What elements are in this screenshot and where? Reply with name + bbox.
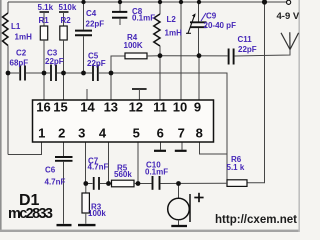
resistor R1 top stub: [43, 12, 45, 26]
junction pin4/R5: [106, 181, 111, 186]
wire antenna row: node to C11: [160, 55, 228, 57]
microphone BM1 body: [168, 198, 190, 220]
wire pin15 drop: [63, 73, 65, 100]
wire pin8 step: [200, 142, 228, 154]
wire main row y73: node A to C2: [8, 72, 19, 74]
wire R4 right lead to node L2: [147, 55, 160, 57]
svg-text:0.1mF: 0.1mF: [145, 168, 168, 177]
junction supply drop top rail: [262, 0, 267, 5]
svg-text:13: 13: [104, 100, 118, 115]
microphone plus sign: [194, 193, 203, 202]
svg-text:L1: L1: [11, 22, 21, 31]
svg-text:7: 7: [178, 126, 185, 141]
wire L2 top lead: [159, 2, 161, 14]
svg-text:R1: R1: [39, 16, 50, 25]
wire C11 to antenna: [235, 50, 290, 57]
wire mic ground stub: [178, 220, 180, 225]
svg-text:100K: 100K: [124, 41, 143, 50]
wire R3 bottom stub: [85, 213, 87, 224]
svg-text:4.7nF: 4.7nF: [45, 178, 66, 187]
wire C10 to mic node to R6 left: [161, 182, 228, 184]
svg-text:3: 3: [78, 126, 85, 141]
svg-text:4.7nF: 4.7nF: [88, 163, 109, 172]
wire R4 left lead (from pin13 node up): [111, 56, 125, 73]
C9 leader line: [201, 13, 206, 21]
svg-text:68pF: 68pF: [10, 59, 29, 68]
wire left rail lower (L1 to pin1 corner): [7, 46, 9, 155]
junction pin5/R5 right: [136, 181, 141, 186]
capacitor C5: [93, 65, 98, 82]
junction mic node: [176, 181, 181, 186]
wire C3 to C5: [57, 72, 92, 74]
wire pin5 drop: [137, 142, 139, 184]
microphone BM1 electrode bar: [189, 194, 191, 222]
wire supply drop from 4-9V node down to R6 right: [247, 2, 265, 183]
node supply terminal 4-9V (open circle): [287, 0, 291, 4]
wire top supply rail: [8, 1, 287, 3]
svg-text:5.1 k: 5.1 k: [227, 163, 245, 172]
wire C6 bottom lead: [63, 162, 65, 224]
svg-text:5: 5: [133, 126, 140, 141]
capacitor C10: [153, 176, 160, 190]
wire pin3 drop: [85, 142, 87, 184]
wire pin1 step: [8, 142, 42, 155]
svg-text:12: 12: [129, 100, 143, 115]
svg-text:http://cxem.net: http://cxem.net: [215, 212, 297, 226]
junction pin13/R4: [109, 71, 114, 76]
scan border left: [0, 0, 2, 232]
wire mic drop: [178, 184, 180, 199]
wire pin4 drop: [108, 142, 110, 184]
capacitor C7: [94, 177, 99, 190]
wire C5 to right corner, down to R6 left: [99, 73, 227, 181]
junction C2 left / left rail: [6, 71, 11, 76]
wire pin10 vertical: [180, 2, 182, 100]
svg-text:0.1mF: 0.1mF: [132, 14, 155, 23]
scan border right: [298, 0, 300, 232]
capacitor C11: [229, 49, 234, 65]
svg-text:4-9 V: 4-9 V: [277, 11, 300, 22]
svg-text:9: 9: [194, 100, 201, 115]
capacitor C9 (variable): [190, 22, 207, 27]
svg-text:22pF: 22pF: [87, 59, 106, 68]
wire C9 bottom to antenna-row node: [198, 28, 200, 56]
capacitor C8: [112, 12, 127, 18]
wire R1 bottom lead: [43, 40, 45, 73]
junction L2 top rail: [158, 0, 162, 4]
wire C8 bottom stub: [119, 19, 121, 25]
svg-text:10: 10: [173, 100, 187, 115]
svg-text:16: 16: [36, 100, 50, 115]
antenna W1: [281, 32, 299, 49]
junction C8 top rail: [118, 0, 122, 4]
wire C2 to C3: [26, 72, 50, 74]
wire left rail upper (top rail corner down to L1): [7, 2, 9, 13]
svg-text:22pF: 22pF: [86, 20, 105, 29]
wire L2 bottom to antenna-row node: [159, 46, 161, 56]
resistor R1 top bar: [40, 11, 50, 13]
wire C7 to pin4 node: [100, 183, 112, 185]
wire pin13 drop: [110, 73, 112, 100]
junction pin10 top rail: [179, 0, 183, 4]
svg-text:15: 15: [53, 100, 67, 115]
svg-text:100k: 100k: [88, 209, 106, 218]
svg-text:R2: R2: [61, 16, 72, 25]
IC U1 MC2833 body: [33, 100, 214, 142]
wire C4 bottom lead: [83, 36, 85, 73]
wire pin7 ground stub: [181, 142, 183, 150]
ground R3: [78, 224, 96, 226]
capacitor C2: [20, 66, 25, 81]
svg-text:14: 14: [80, 100, 95, 115]
resistor R2 top stub: [63, 12, 65, 26]
crystal stub T above pin12: [132, 89, 147, 100]
resistor R1 body: [40, 26, 47, 40]
scan border bottom: [0, 230, 300, 232]
svg-text:L2: L2: [167, 15, 177, 24]
wire R5 right to C10: [134, 183, 152, 185]
wire pin11 drop: [159, 56, 161, 101]
svg-text:2: 2: [58, 126, 65, 141]
capacitor C6: [55, 157, 73, 161]
junction pin3/C7/R3: [83, 181, 88, 186]
wire pin6 ground stub: [160, 142, 162, 150]
svg-text:1: 1: [38, 126, 45, 141]
svg-text:C11: C11: [238, 35, 253, 44]
ground microphone: [171, 225, 187, 227]
resistor R3 body: [82, 193, 89, 213]
capacitor C3: [51, 65, 56, 82]
svg-text:5.1k: 5.1k: [38, 3, 54, 12]
wire C4 top lead: [83, 2, 85, 30]
pin14 stub: [86, 89, 88, 100]
wire C9 top lead: [198, 2, 200, 22]
wire R3 top stub: [85, 184, 87, 194]
svg-text:mc2833: mc2833: [8, 206, 53, 222]
svg-text:22pF: 22pF: [45, 57, 64, 66]
pin numbers bottom row: [38, 126, 203, 141]
svg-text:6: 6: [157, 126, 164, 141]
svg-text:C4: C4: [86, 9, 97, 18]
junction pin16/R1: [42, 71, 47, 76]
ground pin7: [175, 150, 187, 152]
resistor R4 body: [125, 53, 147, 59]
resistor R5 body: [112, 180, 135, 187]
wire R2 bottom lead: [63, 40, 65, 73]
capacitor C9 arrow: [186, 13, 196, 34]
svg-text:8: 8: [196, 126, 203, 141]
svg-text:C6: C6: [45, 166, 56, 175]
svg-text:22pF: 22pF: [238, 45, 257, 54]
svg-text:C2: C2: [16, 49, 27, 58]
svg-text:1mH: 1mH: [165, 28, 183, 37]
capacitor C4: [75, 31, 92, 36]
svg-text:4: 4: [99, 126, 107, 141]
pin numbers top row: [36, 100, 201, 115]
ground C6: [57, 224, 72, 226]
wire pin2 to C6: [63, 142, 65, 156]
wire pin16 drop: [43, 73, 45, 100]
junction pin15/R2: [61, 71, 66, 76]
junction L2/R4/antenna row: [158, 53, 163, 58]
resistor R6 body: [227, 180, 247, 187]
ground pin6: [154, 150, 166, 152]
svg-text:20-40 pF: 20-40 pF: [204, 21, 237, 30]
resistor R2 top bar: [59, 11, 69, 13]
svg-text:510k: 510k: [59, 3, 77, 12]
resistor R2 body: [60, 26, 67, 40]
junction C4 top rail: [81, 0, 85, 4]
svg-text:560k: 560k: [114, 170, 132, 179]
junction C4 bottom: [81, 71, 86, 76]
svg-text:1mH: 1mH: [15, 33, 33, 42]
junction C9 top rail: [197, 0, 201, 4]
junction C9 bottom/pin9: [197, 53, 202, 58]
inductor L1: [3, 13, 9, 46]
inductor L2: [154, 14, 160, 46]
svg-text:C9: C9: [206, 12, 217, 21]
wire pin3 node to C7: [86, 183, 93, 185]
wire C8 top lead: [119, 2, 121, 11]
svg-text:11: 11: [153, 100, 167, 115]
wire pin9 drop: [198, 56, 200, 101]
